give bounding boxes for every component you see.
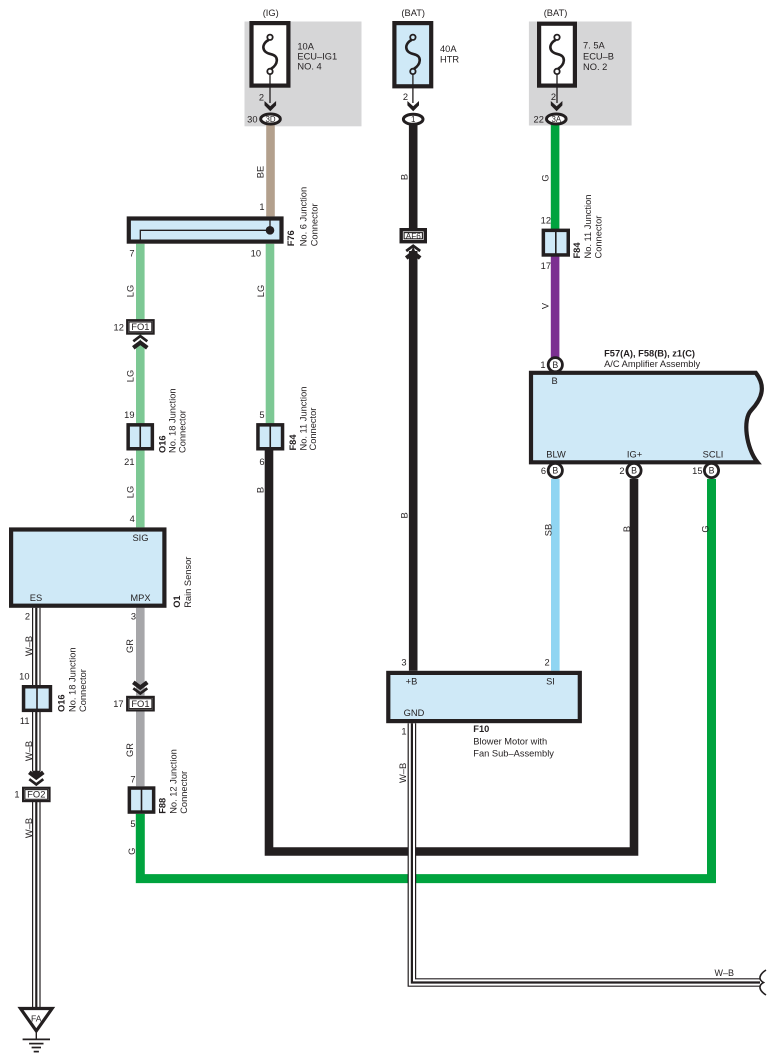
svg-text:10A: 10A <box>297 42 314 52</box>
svg-text:AF6: AF6 <box>406 232 421 241</box>
svg-text:1: 1 <box>411 115 415 124</box>
svg-text:40A: 40A <box>440 44 457 54</box>
svg-text:SCLI: SCLI <box>703 449 724 459</box>
svg-text:NO. 2: NO. 2 <box>583 62 607 72</box>
svg-text:B: B <box>400 512 410 518</box>
svg-text:MPX: MPX <box>130 593 150 603</box>
svg-text:7: 7 <box>129 248 134 258</box>
svg-text:B: B <box>552 360 558 370</box>
svg-text:IG+: IG+ <box>627 449 642 459</box>
svg-text:W–B: W–B <box>24 741 34 761</box>
svg-text:B: B <box>256 487 266 493</box>
svg-text:3: 3 <box>131 611 136 621</box>
svg-text:17: 17 <box>541 261 551 271</box>
svg-text:Connector: Connector <box>177 410 187 453</box>
svg-text:No. 6 Junction: No. 6 Junction <box>299 187 309 246</box>
svg-text:ES: ES <box>30 593 42 603</box>
svg-text:6: 6 <box>259 457 264 467</box>
svg-text:No. 11 Junction: No. 11 Junction <box>583 195 593 259</box>
svg-text:A/C Amplifier Assembly: A/C Amplifier Assembly <box>604 359 700 369</box>
svg-text:Connector: Connector <box>78 669 88 712</box>
svg-text:GND: GND <box>404 708 425 718</box>
svg-text:Connector: Connector <box>179 771 189 814</box>
svg-text:F84: F84 <box>572 242 582 259</box>
svg-text:F88: F88 <box>157 798 167 814</box>
svg-text:7. 5A: 7. 5A <box>583 41 606 51</box>
svg-text:F76: F76 <box>286 230 296 246</box>
svg-text:W–B: W–B <box>715 968 735 978</box>
svg-text:17: 17 <box>113 699 123 709</box>
svg-text:3: 3 <box>401 658 406 668</box>
svg-text:No. 18 Junction: No. 18 Junction <box>68 647 78 712</box>
svg-text:4: 4 <box>130 514 135 524</box>
svg-text:SB: SB <box>544 524 554 536</box>
svg-text:2: 2 <box>551 92 556 102</box>
svg-text:15: 15 <box>692 466 702 476</box>
svg-text:1: 1 <box>540 360 545 370</box>
svg-text:1: 1 <box>401 727 406 737</box>
svg-text:LG: LG <box>126 486 136 498</box>
svg-text:7: 7 <box>130 774 135 784</box>
svg-text:No. 12 Junction: No. 12 Junction <box>169 749 179 814</box>
svg-text:No. 11 Junction: No. 11 Junction <box>298 387 308 451</box>
svg-text:GR: GR <box>125 639 135 653</box>
svg-text:LG: LG <box>256 285 266 297</box>
svg-text:W–B: W–B <box>398 763 408 783</box>
svg-text:11: 11 <box>20 716 30 726</box>
svg-text:GR: GR <box>125 743 135 757</box>
svg-text:FO2: FO2 <box>27 789 45 800</box>
svg-text:F84: F84 <box>288 434 298 451</box>
svg-text:LG: LG <box>126 370 136 382</box>
svg-text:30: 30 <box>247 115 257 125</box>
svg-text:V: V <box>541 302 551 309</box>
svg-text:FO1: FO1 <box>131 321 149 332</box>
svg-text:O16: O16 <box>157 435 167 453</box>
svg-text:B: B <box>400 174 410 180</box>
svg-text:B: B <box>709 466 715 476</box>
svg-text:BLW: BLW <box>546 449 566 459</box>
svg-text:(IG): (IG) <box>263 8 279 18</box>
svg-text:10: 10 <box>19 671 29 681</box>
svg-text:1: 1 <box>259 202 264 212</box>
svg-text:Connector: Connector <box>308 408 318 451</box>
svg-text:2: 2 <box>403 92 408 102</box>
svg-text:1: 1 <box>14 790 19 800</box>
svg-text:W–B: W–B <box>24 818 34 838</box>
svg-text:+B: +B <box>406 677 418 687</box>
svg-text:Rain Sensor: Rain Sensor <box>183 557 193 608</box>
svg-text:F10: F10 <box>473 724 489 734</box>
svg-text:22: 22 <box>534 115 544 125</box>
svg-text:Fan Sub–Assembly: Fan Sub–Assembly <box>473 749 554 759</box>
svg-text:NO. 4: NO. 4 <box>297 62 321 72</box>
svg-text:BE: BE <box>256 166 266 178</box>
svg-text:FO1: FO1 <box>131 698 149 709</box>
svg-text:ECU–B: ECU–B <box>583 52 614 62</box>
svg-text:G: G <box>701 525 711 532</box>
svg-text:Connector: Connector <box>594 216 604 259</box>
svg-text:Blower Motor with: Blower Motor with <box>473 737 547 747</box>
svg-text:B: B <box>622 526 632 532</box>
svg-text:5: 5 <box>259 410 264 420</box>
svg-text:G: G <box>127 848 137 855</box>
svg-text:10: 10 <box>251 248 261 258</box>
svg-text:21: 21 <box>124 457 134 467</box>
svg-text:2: 2 <box>259 93 264 103</box>
svg-text:12: 12 <box>114 323 124 333</box>
svg-text:SI: SI <box>546 677 555 687</box>
svg-text:12: 12 <box>541 216 551 226</box>
svg-text:G: G <box>541 174 551 181</box>
svg-text:2: 2 <box>25 611 30 621</box>
svg-text:3D: 3D <box>265 115 275 124</box>
svg-text:F57(A), F58(B), z1(C): F57(A), F58(B), z1(C) <box>604 349 695 359</box>
svg-text:2: 2 <box>619 466 624 476</box>
svg-text:Connector: Connector <box>310 203 320 246</box>
svg-text:O1: O1 <box>172 595 182 607</box>
svg-text:O16: O16 <box>57 694 67 712</box>
svg-text:5: 5 <box>130 819 135 829</box>
svg-text:HTR: HTR <box>440 55 459 65</box>
svg-text:ECU–IG1: ECU–IG1 <box>297 52 337 62</box>
svg-text:B: B <box>552 466 558 476</box>
svg-text:(BAT): (BAT) <box>401 8 425 18</box>
svg-text:SIG: SIG <box>132 533 148 543</box>
svg-text:2: 2 <box>545 658 550 668</box>
svg-text:FA: FA <box>31 1014 42 1024</box>
svg-text:B: B <box>631 466 637 476</box>
svg-text:LG: LG <box>126 285 136 297</box>
svg-text:No. 18 Junction: No. 18 Junction <box>168 388 178 453</box>
svg-text:B: B <box>551 376 557 386</box>
svg-text:W–B: W–B <box>24 636 34 656</box>
svg-text:6: 6 <box>541 466 546 476</box>
svg-text:(BAT): (BAT) <box>544 8 568 18</box>
svg-text:19: 19 <box>124 410 134 420</box>
svg-text:3A: 3A <box>551 115 561 124</box>
